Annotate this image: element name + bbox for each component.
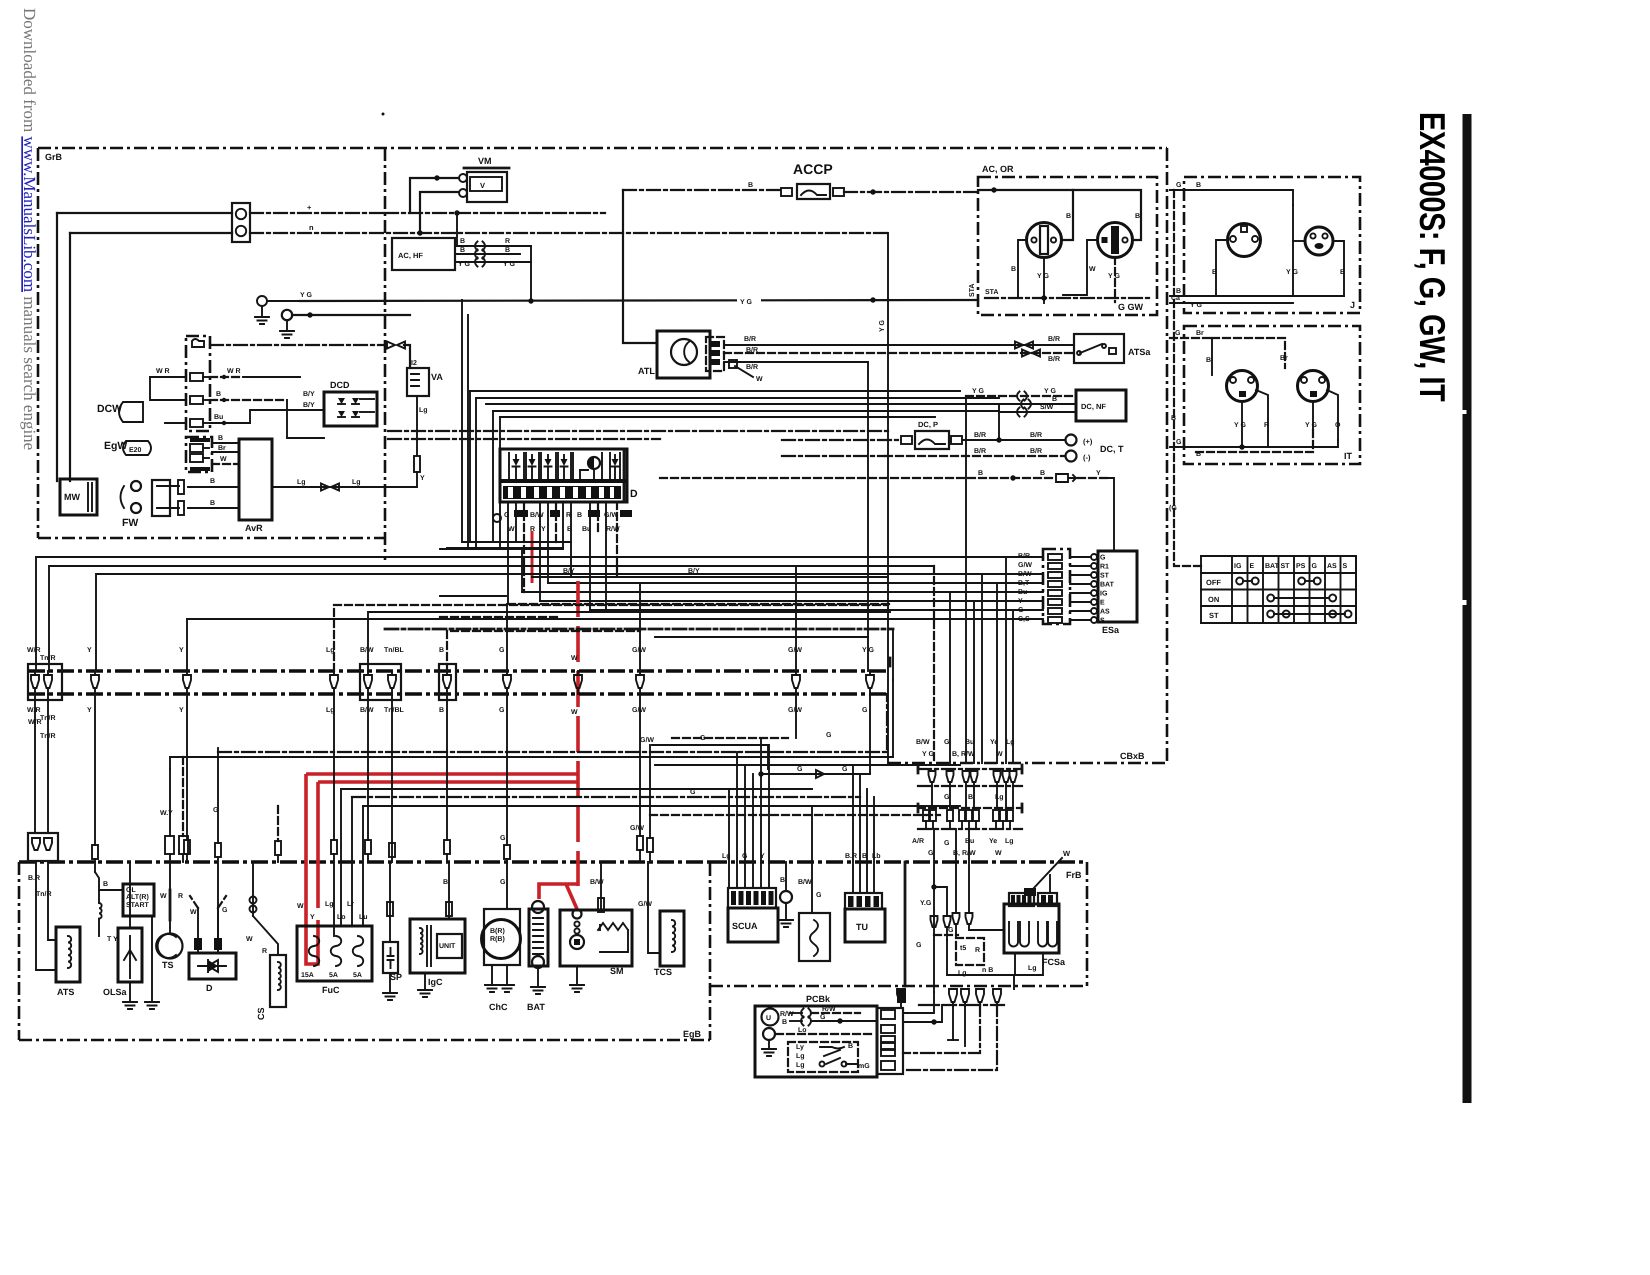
- component MW: [60, 479, 97, 515]
- svg-text:B/R: B/R: [744, 335, 756, 343]
- component SM starter magnet: [560, 910, 632, 966]
- svg-text:B: B: [1340, 269, 1345, 276]
- svg-text:Lo: Lo: [337, 914, 346, 921]
- wires J receptacles: [1216, 240, 1228, 296]
- svg-text:AvR: AvR: [245, 523, 263, 533]
- component AVR: [239, 439, 272, 520]
- svg-text:FCSa: FCSa: [1042, 957, 1066, 967]
- box IT border: [1184, 326, 1360, 464]
- wire ACOR bottom bus: [985, 297, 1150, 299]
- component SCUA: [728, 908, 778, 942]
- wire FCSa right top: [1049, 875, 1051, 893]
- svg-text:G: G: [842, 766, 848, 773]
- grounds OLSa: [129, 982, 131, 1001]
- svg-text:IgC: IgC: [428, 977, 443, 987]
- PCBk relay sub box: [788, 1042, 858, 1072]
- svg-text:Y: Y: [179, 647, 184, 654]
- svg-text:ST: ST: [1209, 611, 1219, 620]
- svg-text:B: B: [780, 877, 785, 884]
- box EgB border: [19, 860, 710, 864]
- component OLSa: [118, 928, 142, 982]
- table ON row contacts: [1267, 595, 1274, 602]
- wires rows to FrB verticals: [931, 786, 933, 808]
- wire verticals below bus: [94, 694, 96, 845]
- wire feeder y566: [49, 566, 796, 671]
- svg-text:Y G: Y G: [922, 751, 934, 758]
- svg-text:Tn/BL: Tn/BL: [384, 706, 405, 714]
- wire mid y605: [334, 605, 888, 671]
- svg-text:G: G: [820, 1014, 826, 1021]
- svg-text:W: W: [995, 850, 1002, 857]
- svg-text:Lg: Lg: [297, 479, 306, 486]
- svg-text:I2: I2: [411, 360, 417, 367]
- svg-text:UNIT: UNIT: [439, 943, 456, 950]
- component FW: [131, 481, 141, 491]
- svg-text:B: B: [1196, 182, 1201, 189]
- box GrB border: [38, 147, 1167, 150]
- svg-text:STA: STA: [969, 284, 976, 297]
- svg-text:Lo: Lo: [798, 1027, 807, 1034]
- connector row 2: [918, 807, 1022, 809]
- svg-text:W: W: [571, 655, 578, 662]
- svg-text:G: G: [1018, 607, 1024, 614]
- wire vertical x893 short: [892, 680, 894, 757]
- svg-text:B: B: [978, 470, 983, 477]
- box FrB border: [904, 862, 907, 986]
- svg-text:Y G: Y G: [740, 299, 752, 306]
- component VM voltmeter: [467, 172, 507, 202]
- watermark: Downloaded from www.ManualsLib.com manuals search engine (rotated): [20, 8, 39, 450]
- svg-text:n B: n B: [982, 967, 993, 974]
- wire red loop horizontal 2: [318, 780, 578, 784]
- svg-text:(+): (+): [1083, 437, 1093, 446]
- wire ATLi third pin: [724, 361, 868, 363]
- wire EgW pins to AVR: [212, 442, 239, 444]
- component SP: [383, 942, 398, 973]
- wires IT receptacles down: [1241, 402, 1243, 447]
- svg-text:PS: PS: [1296, 563, 1306, 570]
- svg-text:n: n: [309, 223, 314, 232]
- wire mid y752: [218, 694, 887, 752]
- wire line y233: [70, 232, 232, 234]
- wire FrB vertical 3: [968, 829, 970, 913]
- diode block D separator: [500, 479, 627, 483]
- svg-text:W: W: [297, 903, 304, 910]
- svg-text:Y G: Y G: [1190, 302, 1202, 309]
- wire B-T line y478: [660, 477, 1055, 479]
- svg-text:G: G: [1312, 563, 1318, 570]
- svg-text:G/W: G/W: [638, 900, 652, 908]
- wire B line through ACCP: [623, 189, 781, 191]
- svg-text:S: S: [1343, 563, 1348, 570]
- svg-text:B/W: B/W: [798, 878, 812, 886]
- component CS: [270, 955, 286, 1007]
- svg-text:C,S: C,S: [1018, 616, 1030, 623]
- svg-text:Y G: Y G: [300, 292, 312, 299]
- svg-text:W: W: [220, 456, 227, 463]
- svg-text:Tn/R: Tn/R: [36, 890, 52, 898]
- svg-text:5A: 5A: [353, 972, 362, 979]
- svg-text:W: W: [508, 526, 515, 533]
- wires into ATS: [36, 861, 56, 970]
- svg-text:Y G: Y G: [1108, 273, 1120, 280]
- component TS pulser: [158, 934, 183, 959]
- svg-text:G: G: [499, 707, 505, 714]
- svg-text:B/Y: B/Y: [303, 401, 315, 409]
- wire fan line 2: [476, 397, 999, 399]
- wire FrB G line: [934, 934, 958, 936]
- svg-text:Bu: Bu: [965, 739, 974, 746]
- svg-text:G: G: [690, 789, 696, 796]
- wire verticals x170 x183 to EgB: [169, 769, 171, 836]
- wire fan line 3: [486, 403, 1076, 405]
- svg-text:G: G: [944, 739, 950, 746]
- svg-text:U: U: [766, 1015, 771, 1022]
- svg-text:EX4000S: F, G, GW, IT: EX4000S: F, G, GW, IT: [1412, 112, 1453, 402]
- svg-text:G: G: [816, 892, 822, 899]
- wire into relay small: [811, 806, 813, 913]
- svg-text:Lb: Lb: [872, 852, 881, 860]
- box CBxB border: [1166, 148, 1169, 763]
- svg-text:Y: Y: [87, 707, 92, 714]
- svg-text:CS: CS: [256, 1007, 266, 1020]
- component VA: [407, 368, 429, 396]
- svg-text:BAT: BAT: [527, 1002, 545, 1012]
- svg-text:R: R: [505, 238, 510, 245]
- wire fan line 1: [470, 390, 960, 392]
- wire SM top B/W: [600, 862, 602, 910]
- wire PCBk top link: [903, 1005, 942, 1022]
- wire mid y612: [368, 612, 890, 671]
- svg-text:Lg: Lg: [1005, 838, 1014, 845]
- svg-text:B: B: [218, 435, 223, 442]
- tiny speck top-left: [382, 113, 385, 116]
- svg-text:Y G: Y G: [879, 320, 886, 332]
- wire red loop horizontal 1: [306, 772, 578, 776]
- wire long dash-dot y431: [388, 430, 888, 432]
- component AC,HF noise filter: [392, 238, 455, 270]
- svg-text:TS: TS: [162, 960, 174, 970]
- wire line y213: [57, 212, 232, 214]
- svg-text:Y G: Y G: [1037, 273, 1049, 280]
- wire EgB-to-FrB top bus continuation: [710, 860, 1087, 864]
- svg-text:Tn/R: Tn/R: [40, 732, 56, 740]
- svg-text:AC, OR: AC, OR: [982, 164, 1014, 174]
- svg-text:E20: E20: [129, 447, 142, 454]
- wire mid y637: [655, 636, 868, 638]
- terminal B ground: [785, 862, 787, 891]
- svg-text:Lu: Lu: [359, 914, 368, 921]
- svg-text:B/R: B/R: [974, 431, 986, 439]
- wire line y610: [590, 609, 1043, 611]
- switch wire W at ATLi: [735, 366, 753, 377]
- svg-text:PCBk: PCBk: [806, 994, 831, 1004]
- wire SP top and ground: [389, 862, 391, 942]
- svg-text:G: G: [499, 647, 505, 654]
- svg-text:B/R: B/R: [746, 346, 758, 354]
- receptacle ACOR-2: [1098, 223, 1133, 258]
- wire mid y765: [655, 764, 960, 766]
- wire line y604 dash: [508, 603, 890, 605]
- svg-text:Y G: Y G: [1286, 269, 1298, 276]
- connector 2-pin block top-left: [232, 203, 250, 242]
- bus bracket boxes: [28, 664, 62, 700]
- svg-text:G: G: [504, 512, 510, 519]
- table ST row contacts: [1267, 611, 1274, 618]
- wire verticals SCUA TU feeds: [728, 789, 730, 888]
- svg-text:Lg: Lg: [1006, 739, 1015, 746]
- wire mid y797: [352, 796, 860, 798]
- svg-text:R: R: [975, 947, 980, 954]
- svg-text:V: V: [480, 181, 485, 190]
- svg-text:G: G: [213, 807, 219, 814]
- svg-text:DC, P: DC, P: [918, 420, 938, 429]
- wire fan line 4: [493, 410, 999, 412]
- svg-text:Y: Y: [760, 853, 765, 860]
- wire TCS top: [648, 862, 660, 953]
- svg-text:W/R: W/R: [28, 718, 42, 726]
- svg-text:IG: IG: [1234, 563, 1242, 570]
- wire red main vertical dashed: [576, 581, 580, 886]
- receptacle IT-1: [1227, 371, 1258, 402]
- diode block D cells: [509, 453, 524, 481]
- wire feeder y557: [36, 557, 1043, 671]
- relay sub box FrB: [956, 938, 984, 965]
- svg-text:SCUA: SCUA: [732, 921, 758, 931]
- box AC,OR border: [978, 177, 1157, 315]
- wire DC,T minus: [885, 455, 1065, 457]
- connector ATLi pins: [706, 337, 724, 371]
- wire DCW pin2: [150, 376, 186, 378]
- wires left of diode block verticals: [461, 300, 463, 542]
- wire GrB left vertical 1: [56, 213, 58, 481]
- ground symbol 2 with B line: [282, 310, 292, 320]
- wire DCW pin3: [150, 377, 160, 400]
- svg-text:G GW: G GW: [1118, 302, 1144, 312]
- svg-text:ATS: ATS: [57, 987, 74, 997]
- svg-text:15A: 15A: [301, 972, 314, 979]
- svg-text:Lg: Lg: [352, 479, 361, 486]
- diode block D outer: [500, 449, 627, 502]
- wire feeder y574: [96, 574, 1043, 671]
- svg-text:Y G: Y G: [972, 388, 984, 395]
- fuse box FuC: [297, 926, 372, 981]
- svg-text:Y G: Y G: [458, 261, 470, 268]
- svg-text:G: G: [1100, 555, 1106, 562]
- wire DCW pin4: [165, 422, 186, 424]
- diode block D dark pin band: [503, 486, 621, 499]
- wire into CS: [252, 862, 254, 916]
- svg-text:B(R): B(R): [490, 927, 505, 935]
- svg-text:R(B): R(B): [490, 935, 505, 943]
- wire corner lines y542 y549: [462, 541, 571, 543]
- svg-text:G: G: [944, 840, 950, 847]
- receptacle J-1: [1228, 224, 1261, 257]
- wire relay box left B: [99, 889, 123, 891]
- svg-text:R/W: R/W: [780, 1010, 794, 1018]
- svg-text:ATSa: ATSa: [1128, 347, 1151, 357]
- svg-text:B/R: B/R: [1030, 447, 1042, 455]
- svg-text:W: W: [246, 936, 253, 943]
- svg-text:OFF: OFF: [1206, 578, 1221, 587]
- svg-text:B: B: [577, 512, 582, 519]
- svg-text:G: G: [222, 907, 228, 914]
- svg-text:AS: AS: [1100, 609, 1110, 616]
- svg-text:G: G: [862, 707, 868, 714]
- wire line y619 long: [187, 618, 1043, 620]
- svg-text:B: B: [1040, 470, 1045, 477]
- component ChC charge coil: [484, 909, 520, 965]
- box PCBk: [755, 1006, 877, 1077]
- svg-text:B: B: [1206, 357, 1211, 364]
- svg-text:FW: FW: [122, 517, 138, 529]
- svg-text:W: W: [190, 909, 197, 916]
- wire mid y757 long: [170, 756, 893, 758]
- wire TS top thick: [169, 890, 172, 920]
- receptacle J-2: [1305, 227, 1333, 255]
- svg-text:B: B: [439, 707, 444, 714]
- svg-text:D: D: [206, 983, 213, 993]
- svg-text:(G: (G: [1169, 504, 1177, 512]
- svg-text:Y: Y: [310, 914, 315, 921]
- svg-text:mG: mG: [858, 1063, 870, 1070]
- wire vertical x218: [217, 748, 219, 843]
- wire AC,OR input to receptacles: [978, 190, 1073, 240]
- wire Y/G long line to AC,OR: [300, 300, 978, 301]
- svg-text:FrB: FrB: [1066, 870, 1082, 880]
- wire verticals right bundle above rows: [933, 566, 935, 763]
- svg-text:ATLi: ATLi: [638, 366, 657, 376]
- svg-text:B: B: [968, 794, 973, 801]
- ground symbol 1 with Y/G line: [257, 296, 267, 306]
- svg-text:B: B: [210, 478, 215, 485]
- svg-text:G: G: [948, 927, 954, 934]
- wire into table: [1174, 190, 1201, 566]
- svg-text:+: +: [307, 203, 312, 212]
- svg-text:R: R: [1264, 422, 1269, 429]
- wire FrB vertical 1b jog: [934, 887, 947, 915]
- pins FrB bottom row: [897, 989, 905, 1006]
- svg-text:B/Y: B/Y: [303, 390, 315, 398]
- svg-text:G: G: [797, 766, 803, 773]
- svg-text:G: G: [916, 942, 922, 949]
- svg-text:Ye: Ye: [989, 838, 997, 845]
- svg-text:B: B: [1135, 213, 1140, 220]
- svg-text:SP: SP: [390, 972, 402, 982]
- svg-text:DC, NF: DC, NF: [1081, 402, 1106, 411]
- svg-text:ON: ON: [1208, 595, 1219, 604]
- wires into DC,NF: [966, 395, 1076, 397]
- svg-text:TU: TU: [856, 922, 868, 932]
- svg-text:B.R: B.R: [28, 875, 40, 882]
- svg-text:O: O: [1335, 422, 1341, 429]
- wire mid y774 G line: [763, 773, 870, 775]
- component TU: [845, 909, 885, 942]
- wire vertical x278: [277, 806, 279, 841]
- wire vertical x888: [887, 233, 889, 763]
- svg-text:B/W: B/W: [590, 878, 604, 886]
- table key switch contacts: [1201, 556, 1356, 623]
- wires FrB sub to pins: [947, 940, 1014, 989]
- svg-text:B: B: [439, 647, 444, 654]
- wire FrB vertical 2: [955, 829, 957, 913]
- svg-text:B: B: [1212, 269, 1217, 276]
- wire DC,T plus: [962, 439, 1065, 441]
- table OFF row contacts: [1236, 578, 1243, 585]
- wire DC,P left: [782, 439, 901, 441]
- svg-text:B: B: [848, 1043, 853, 1050]
- svg-text:Y: Y: [541, 526, 546, 533]
- svg-text:ST: ST: [1281, 563, 1291, 570]
- wire mid y789: [341, 788, 812, 790]
- svg-text:ChC: ChC: [489, 1002, 508, 1012]
- svg-text:R/W: R/W: [822, 1005, 836, 1013]
- wire ATLi to ATSa line2: [724, 352, 1074, 354]
- wire fan line 5: [500, 416, 935, 418]
- svg-text:BAT: BAT: [1100, 582, 1115, 589]
- wire line y589-592: [522, 591, 1043, 593]
- svg-text:Y G: Y G: [1305, 422, 1317, 429]
- svg-text:Y G: Y G: [1044, 388, 1056, 395]
- PCBk pilot lamps: [762, 1009, 779, 1026]
- svg-text:G: G: [700, 735, 706, 742]
- svg-text:B: B: [460, 238, 465, 245]
- svg-text:Lr: Lr: [347, 901, 354, 908]
- svg-text:ST: ST: [1100, 573, 1110, 580]
- svg-text:DC, T: DC, T: [1100, 444, 1124, 454]
- wire VA to AVR Lg line: [416, 396, 418, 455]
- svg-text:(-): (-): [1083, 453, 1091, 462]
- svg-text:GrB: GrB: [45, 152, 63, 162]
- wire DCW pin1 to VA: [210, 344, 385, 346]
- svg-text:Bu: Bu: [1018, 589, 1027, 596]
- svg-text:Ly: Ly: [796, 1044, 804, 1051]
- svg-text:W R: W R: [156, 368, 170, 375]
- wire mid y806: [363, 805, 960, 807]
- svg-text:t5: t5: [960, 945, 966, 952]
- wire mid y629 heavy: [385, 628, 893, 631]
- svg-text:ACCP: ACCP: [793, 161, 833, 177]
- component ATS: [56, 927, 80, 982]
- component ESa switch box: [1098, 551, 1137, 622]
- wire mid y745: [652, 745, 768, 769]
- svg-text:Bu: Bu: [214, 414, 223, 421]
- svg-text:Downloaded from www.ManualsLib: Downloaded from www.ManualsLib.com manua…: [20, 8, 39, 450]
- svg-text:Y: Y: [1096, 470, 1101, 477]
- svg-text:B/W: B/W: [530, 511, 544, 519]
- wire mid y738: [672, 737, 788, 739]
- svg-text:AS: AS: [1327, 563, 1337, 570]
- svg-text:ALT(R): ALT(R): [126, 893, 149, 901]
- svg-text:B/R: B/R: [1018, 552, 1030, 560]
- wire long dash-dot y439: [388, 438, 660, 440]
- svg-text:SM: SM: [610, 966, 624, 976]
- connector strip DCW: [186, 336, 210, 431]
- right side heavy black bar: [1463, 114, 1472, 1103]
- svg-text:BAT: BAT: [1265, 563, 1280, 570]
- component IgC ignition coil: [410, 919, 465, 973]
- svg-text:B: B: [210, 500, 215, 507]
- wire IgC top and ground: [448, 862, 450, 919]
- svg-text:B, R/W: B, R/W: [952, 750, 975, 758]
- svg-text:Lg: Lg: [325, 901, 334, 908]
- diode block D circle: [588, 457, 600, 469]
- svg-text:R: R: [262, 948, 267, 955]
- svg-text:G/W: G/W: [1018, 561, 1032, 569]
- svg-text:B: B: [1171, 415, 1176, 422]
- wire J input: [1170, 190, 1293, 205]
- svg-text:CBxB: CBxB: [1120, 751, 1145, 761]
